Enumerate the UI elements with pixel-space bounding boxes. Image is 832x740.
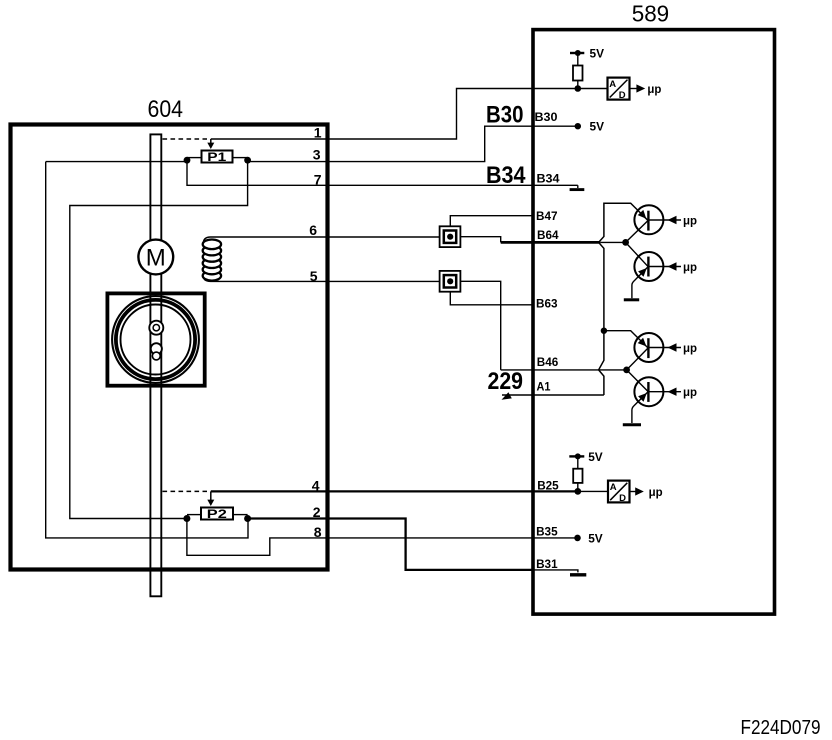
- svg-text:μp: μp: [683, 341, 697, 355]
- resistor R1 pull-up: [577, 53, 579, 66]
- svg-text:604: 604: [148, 96, 184, 123]
- svg-text:μp: μp: [683, 260, 697, 274]
- wire pin7 (P1 left to B34 ground): [187, 160, 578, 185]
- svg-text:D: D: [619, 493, 626, 504]
- P1 left stub: [187, 157, 202, 159]
- svg-text:5V: 5V: [588, 531, 603, 545]
- unit 604 box: [11, 125, 328, 570]
- shaft screw upper: [149, 321, 163, 335]
- wire B64 thin to node: [600, 241, 625, 243]
- svg-text:3: 3: [313, 146, 321, 162]
- svg-text:5: 5: [310, 268, 318, 284]
- svg-text:B25: B25: [537, 478, 559, 492]
- node P2 right: [244, 515, 251, 522]
- arrow U2 to microprocessor: [630, 491, 636, 493]
- P2 left stub: [187, 514, 201, 516]
- connector X2: [440, 271, 461, 292]
- throttle body housing: [107, 293, 204, 385]
- ground T4: [623, 423, 641, 426]
- throttle bore inner circle: [121, 305, 191, 375]
- svg-text:5V: 5V: [588, 450, 603, 464]
- A/D converter U1: [608, 78, 630, 100]
- svg-text:P2: P2: [207, 507, 227, 521]
- svg-text:229: 229: [488, 368, 524, 395]
- +5V B25 pull-up supply: [569, 455, 584, 457]
- svg-text:μp: μp: [683, 214, 697, 228]
- ground T2: [624, 298, 639, 301]
- node B64: [622, 239, 629, 246]
- wire B25 to A/D U2: [578, 490, 608, 492]
- svg-text:B30: B30: [535, 110, 558, 124]
- svg-text:5V: 5V: [590, 47, 605, 61]
- svg-text:B34: B34: [537, 172, 560, 186]
- svg-text:B63: B63: [536, 297, 558, 311]
- unit 589 box: [533, 30, 775, 615]
- wire pin4 to B25: [211, 490, 578, 492]
- ground B34: [577, 185, 579, 188]
- throttle shaft: [150, 134, 161, 596]
- svg-text:μp: μp: [647, 82, 661, 96]
- wire A1 stub to 229: [502, 394, 534, 396]
- wire rail to T3 emitter: [604, 331, 648, 348]
- P1 wiper dashed link from shaft: [163, 138, 208, 140]
- +5V at B35: [574, 535, 581, 542]
- wire node to T3: [627, 348, 648, 370]
- wire pin4 dashed link from shaft: [163, 490, 208, 492]
- svg-text:D: D: [619, 90, 626, 101]
- transistor T2: [632, 252, 681, 298]
- wire X2 to B46: [460, 281, 500, 370]
- svg-text:589: 589: [632, 0, 670, 26]
- wire B46 to node: [501, 369, 627, 371]
- svg-text:B30: B30: [486, 101, 524, 128]
- wire 3 left segment: [46, 161, 187, 163]
- svg-text:6: 6: [309, 222, 317, 238]
- transistor T4: [632, 377, 681, 423]
- P2 right stub: [233, 514, 248, 516]
- motor M: [138, 240, 173, 275]
- wire node to T4: [627, 370, 648, 391]
- wire 5 (coil bottom to connector): [203, 276, 439, 282]
- wire B31 inside: [534, 570, 578, 573]
- node P1 right: [244, 157, 251, 164]
- transistor T3: [634, 333, 681, 362]
- connector X1: [440, 226, 461, 247]
- wire pin3 to B30 pin: [248, 126, 578, 161]
- solenoid coil: [203, 240, 221, 281]
- node B25: [574, 488, 581, 495]
- wire rail P1-right to P2-left: [70, 162, 248, 519]
- svg-text:5V: 5V: [590, 120, 605, 134]
- wire pin2 (P2 right to B31): [248, 519, 534, 570]
- svg-text:M: M: [146, 245, 166, 272]
- wire X1 to B64: [460, 237, 500, 243]
- wire X2 to B63: [450, 292, 534, 305]
- arrow U1 to microprocessor: [630, 88, 638, 90]
- ground B31: [570, 573, 586, 576]
- throttle plate ring: [116, 300, 195, 379]
- +5V at B30: [575, 123, 581, 129]
- potentiometer P1: [202, 151, 233, 163]
- supply rail A1 with crossover hops: [599, 203, 648, 395]
- svg-text:A1: A1: [537, 380, 551, 394]
- svg-text:A: A: [609, 79, 616, 90]
- throttle bore outer circle: [112, 296, 199, 383]
- wire node to T2: [626, 242, 648, 266]
- wire pin1 (P1 wiper to A/D input): [211, 89, 608, 140]
- svg-text:2: 2: [313, 504, 321, 520]
- P1 right stub: [233, 157, 248, 159]
- svg-text:B31: B31: [536, 557, 558, 571]
- svg-text:P1: P1: [207, 150, 226, 164]
- wire A1 inside: [534, 394, 604, 396]
- node B46: [623, 367, 630, 374]
- arrow to 229: [502, 392, 512, 400]
- wire pin8 (P2 left loop to B35): [187, 519, 578, 556]
- node P2 left: [183, 515, 190, 522]
- transistor T1: [634, 205, 681, 234]
- svg-text:B46: B46: [537, 355, 559, 369]
- svg-text:μp: μp: [649, 485, 663, 499]
- P1 wiper arrow: [210, 139, 212, 144]
- svg-text:A: A: [610, 482, 617, 493]
- svg-text:B34: B34: [486, 162, 526, 189]
- resistor R2 pull-up: [577, 456, 579, 468]
- svg-text:B35: B35: [536, 524, 558, 538]
- P2 wiper arrow: [210, 491, 212, 501]
- node P1 left: [184, 157, 191, 164]
- svg-text:F224D079: F224D079: [741, 716, 821, 739]
- wire B64 thick: [501, 241, 601, 244]
- shaft screw lower: [151, 343, 162, 360]
- wire node to T1: [626, 221, 648, 243]
- svg-text:7: 7: [314, 171, 322, 187]
- +5V top pull-up supply: [570, 52, 584, 54]
- svg-text:B64: B64: [537, 228, 559, 242]
- wire 6 (coil top to connector): [203, 237, 439, 244]
- svg-text:1: 1: [314, 124, 322, 140]
- wire B47 to connector X1: [450, 216, 534, 227]
- wire rail P1-left to P2-right (via bottom): [46, 162, 248, 538]
- A/D converter U2: [608, 481, 630, 503]
- svg-text:μp: μp: [683, 385, 697, 399]
- node rail to T3: [601, 328, 607, 334]
- svg-text:B47: B47: [536, 209, 558, 223]
- svg-text:4: 4: [312, 477, 320, 493]
- svg-text:8: 8: [314, 524, 322, 540]
- potentiometer P2: [201, 508, 233, 520]
- node pullup/AD1: [575, 85, 582, 92]
